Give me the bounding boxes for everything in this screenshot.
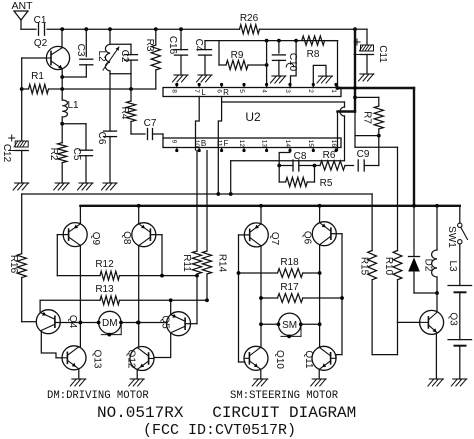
svg-text:R18: R18 xyxy=(280,257,299,268)
svg-text:R1: R1 xyxy=(31,71,44,82)
svg-text:7: 7 xyxy=(193,89,200,93)
svg-text:5: 5 xyxy=(238,89,245,93)
svg-text:Q6: Q6 xyxy=(302,231,313,245)
svg-text:6: 6 xyxy=(215,89,222,93)
svg-text:R15: R15 xyxy=(359,257,370,276)
svg-text:C6: C6 xyxy=(96,132,107,145)
svg-text:15: 15 xyxy=(307,140,314,148)
svg-text:C11: C11 xyxy=(377,45,388,63)
svg-text:C7: C7 xyxy=(144,118,157,129)
svg-text:C16: C16 xyxy=(167,36,178,55)
svg-text:R7: R7 xyxy=(362,111,373,124)
svg-text:R12: R12 xyxy=(95,259,114,270)
svg-text:C4: C4 xyxy=(193,39,204,52)
svg-text:R14: R14 xyxy=(217,254,228,273)
svg-text:1: 1 xyxy=(330,89,337,93)
svg-text:L2: L2 xyxy=(96,50,107,62)
svg-text:R9: R9 xyxy=(231,50,244,61)
svg-text:Q9: Q9 xyxy=(90,232,101,246)
svg-text:DM:DRIVING MOTOR: DM:DRIVING MOTOR xyxy=(47,390,149,402)
svg-text:3: 3 xyxy=(284,89,291,93)
svg-text:R3: R3 xyxy=(144,39,155,52)
svg-text:R5: R5 xyxy=(320,178,333,189)
svg-text:Q11: Q11 xyxy=(303,350,314,369)
svg-text:R17: R17 xyxy=(280,282,299,293)
svg-text:Q4: Q4 xyxy=(67,315,78,329)
svg-text:10: 10 xyxy=(193,140,200,148)
svg-text:4: 4 xyxy=(260,89,267,93)
svg-text:R6: R6 xyxy=(323,150,336,161)
svg-text:C12: C12 xyxy=(1,144,12,163)
svg-text:Q8: Q8 xyxy=(121,231,132,245)
svg-text:(FCC ID:CVT0517R): (FCC ID:CVT0517R) xyxy=(143,422,296,439)
svg-text:DM: DM xyxy=(102,318,118,329)
svg-text:13: 13 xyxy=(260,140,267,148)
svg-text:B: B xyxy=(201,139,206,148)
svg-text:L: L xyxy=(201,88,206,97)
svg-text:SW1: SW1 xyxy=(446,226,457,248)
svg-text:R11: R11 xyxy=(181,254,192,272)
svg-text:8: 8 xyxy=(171,89,178,93)
svg-text:U2: U2 xyxy=(245,110,261,124)
svg-text:Q7: Q7 xyxy=(269,232,280,246)
svg-text:R: R xyxy=(223,88,229,97)
svg-text:16: 16 xyxy=(330,140,337,148)
svg-text:C2: C2 xyxy=(119,50,130,63)
svg-text:NO.0517RX CIRCUIT DIAGRAM: NO.0517RX CIRCUIT DIAGRAM xyxy=(97,404,356,422)
svg-text:C9: C9 xyxy=(357,149,370,160)
svg-text:R16: R16 xyxy=(8,255,19,274)
svg-text:12: 12 xyxy=(238,140,245,148)
svg-text:R2: R2 xyxy=(48,148,59,161)
svg-text:Q13: Q13 xyxy=(92,350,103,369)
svg-text:Q10: Q10 xyxy=(274,350,285,369)
svg-text:L1: L1 xyxy=(67,100,79,111)
svg-text:C3: C3 xyxy=(75,44,86,57)
svg-text:14: 14 xyxy=(284,140,291,148)
svg-text:Q5: Q5 xyxy=(160,315,171,329)
svg-text:R13: R13 xyxy=(95,284,114,295)
svg-text:R4: R4 xyxy=(119,107,130,120)
svg-text:SM:STEERING MOTOR: SM:STEERING MOTOR xyxy=(230,390,339,402)
svg-text:R26: R26 xyxy=(240,13,259,24)
svg-text:R10: R10 xyxy=(383,257,394,276)
svg-text:Q3: Q3 xyxy=(448,312,459,326)
svg-text:R8: R8 xyxy=(307,49,320,60)
svg-text:2: 2 xyxy=(307,89,314,93)
svg-text:SM: SM xyxy=(282,320,297,331)
svg-text:L3: L3 xyxy=(447,260,458,272)
svg-text:F: F xyxy=(224,139,229,148)
svg-text:C5: C5 xyxy=(71,148,82,161)
svg-text:Q12: Q12 xyxy=(126,350,137,369)
svg-text:9: 9 xyxy=(171,140,178,144)
svg-text:C1: C1 xyxy=(34,15,47,26)
svg-text:Q2: Q2 xyxy=(34,38,48,49)
svg-text:ANT: ANT xyxy=(12,0,34,12)
